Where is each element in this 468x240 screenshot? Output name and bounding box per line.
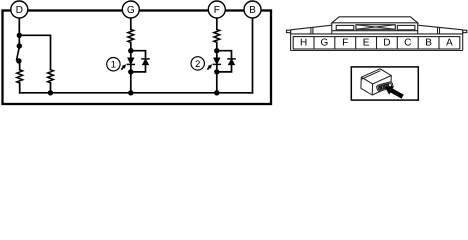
pin divider G/F xyxy=(334,37,336,49)
wire: diode D2 bottom to junction B2 xyxy=(131,65,146,72)
wire: resistor R2 bottom to rail xyxy=(50,83,52,93)
pin divider C/B xyxy=(417,37,419,49)
left shoulder seam xyxy=(310,28,312,34)
pin H xyxy=(301,39,307,46)
connector center block left side xyxy=(331,23,333,34)
junction dot A1 xyxy=(17,33,22,38)
diode D3 cathode bar xyxy=(213,63,220,65)
connector body lid seam xyxy=(361,71,380,80)
pointer arrow for label 1 xyxy=(121,64,126,70)
latch window left xyxy=(336,25,354,29)
pin B xyxy=(426,39,431,46)
pin divider H/G xyxy=(313,37,315,49)
pin divider B/A xyxy=(438,37,440,49)
wire: bottom ground rail xyxy=(20,92,253,94)
wire: parallel branch right leg with diode D4 xyxy=(217,51,232,59)
junction dot C3 on rail xyxy=(214,90,219,95)
wire: node A3 to resistor R1 top xyxy=(19,61,21,70)
pin A xyxy=(446,39,453,46)
connector body front vertical edge xyxy=(371,84,373,95)
connector right shoulder slope xyxy=(418,25,463,30)
pin D xyxy=(384,39,390,46)
right shoulder seam xyxy=(437,27,439,34)
connector center block bottom line xyxy=(332,30,418,32)
connector body right edge xyxy=(462,30,464,51)
diode D2 (right, cathode up) xyxy=(143,59,149,64)
connector body top line xyxy=(291,33,463,35)
connector body silhouette xyxy=(361,69,391,95)
resistor R2 (right of R1) xyxy=(48,70,54,83)
connector orientation key box xyxy=(351,67,418,100)
callout label 1 xyxy=(107,57,120,70)
wire: terminal F down xyxy=(216,14,218,29)
wire: resistor R4 to junction C1 xyxy=(216,42,218,57)
wire: rail up to terminal B xyxy=(252,14,254,93)
wire: parallel branch right leg with diode D2 xyxy=(131,51,146,59)
center lock X cross xyxy=(356,25,395,30)
terminal B xyxy=(244,1,261,18)
wire: branch from junction A to right resistor top xyxy=(19,35,50,69)
connector body bottom line xyxy=(291,50,463,52)
connector center block right side xyxy=(417,23,419,34)
3D connector sketch xyxy=(361,69,393,95)
direction arrow xyxy=(385,86,404,98)
wire: terminal G down xyxy=(130,14,132,29)
pin G xyxy=(321,39,328,46)
switch blade between node A2 and node A3 xyxy=(17,47,20,60)
connector socket outline xyxy=(376,81,393,91)
diode D3 (left, cathode down) xyxy=(214,58,220,64)
junction dot C1 xyxy=(214,48,219,53)
connector hood trapezoid xyxy=(332,17,418,23)
socket pin squares xyxy=(379,86,382,88)
junction dot B1 xyxy=(128,48,133,53)
diode D4 anode bar xyxy=(228,58,235,60)
wire: diode D1 to junction B2 xyxy=(130,64,132,92)
center lock rectangle xyxy=(356,25,395,30)
pin divider F/E xyxy=(355,37,357,49)
junction dot C2 xyxy=(214,69,219,74)
diode D2 anode bar xyxy=(142,58,149,60)
wire: terminal D down to junction A xyxy=(18,14,20,46)
diode D1 (left, cathode down) xyxy=(128,58,134,64)
resistor R4 (below F) xyxy=(214,29,220,42)
connector right mounting tab xyxy=(463,30,467,32)
wire: diode D3 to junction C2 xyxy=(216,64,218,92)
pin C xyxy=(405,39,411,46)
pin divider E/D xyxy=(376,37,378,49)
terminal G xyxy=(122,1,139,18)
junction dot B3 on rail xyxy=(128,90,133,95)
connector left shoulder slope xyxy=(291,25,332,30)
connector body top-face front edges xyxy=(361,76,391,84)
pin letters xyxy=(301,39,453,46)
diode D1 cathode bar xyxy=(127,63,134,65)
pin F xyxy=(343,39,348,46)
callout label 2 xyxy=(191,57,204,70)
pin E xyxy=(364,39,369,46)
wire: resistor R1 bottom to ground rail xyxy=(19,83,21,93)
pointer arrow for label 2 xyxy=(207,64,212,70)
connector left mounting tab xyxy=(287,30,291,32)
resistor R1 (left) xyxy=(17,70,23,83)
connector body left edge xyxy=(290,30,292,51)
wire: resistor R3 to junction B1 xyxy=(130,42,132,57)
terminal D xyxy=(11,1,28,18)
connector pin cavity row xyxy=(293,37,460,49)
diode D4 (right, cathode up) xyxy=(229,59,235,64)
pin divider D/C xyxy=(396,37,398,49)
junction dot A3 xyxy=(16,58,21,63)
terminal F xyxy=(208,1,225,18)
latch window right xyxy=(397,25,415,29)
junction dot B2 xyxy=(128,69,133,74)
voltage regulator case outline xyxy=(3,11,272,105)
junction dot R2 bottom on rail xyxy=(48,90,53,95)
resistor R3 (below G) xyxy=(128,29,134,42)
connector pinout drawing xyxy=(287,17,467,51)
wire: diode D4 bottom to junction C2 xyxy=(217,65,232,72)
junction dot A2 xyxy=(17,43,22,48)
